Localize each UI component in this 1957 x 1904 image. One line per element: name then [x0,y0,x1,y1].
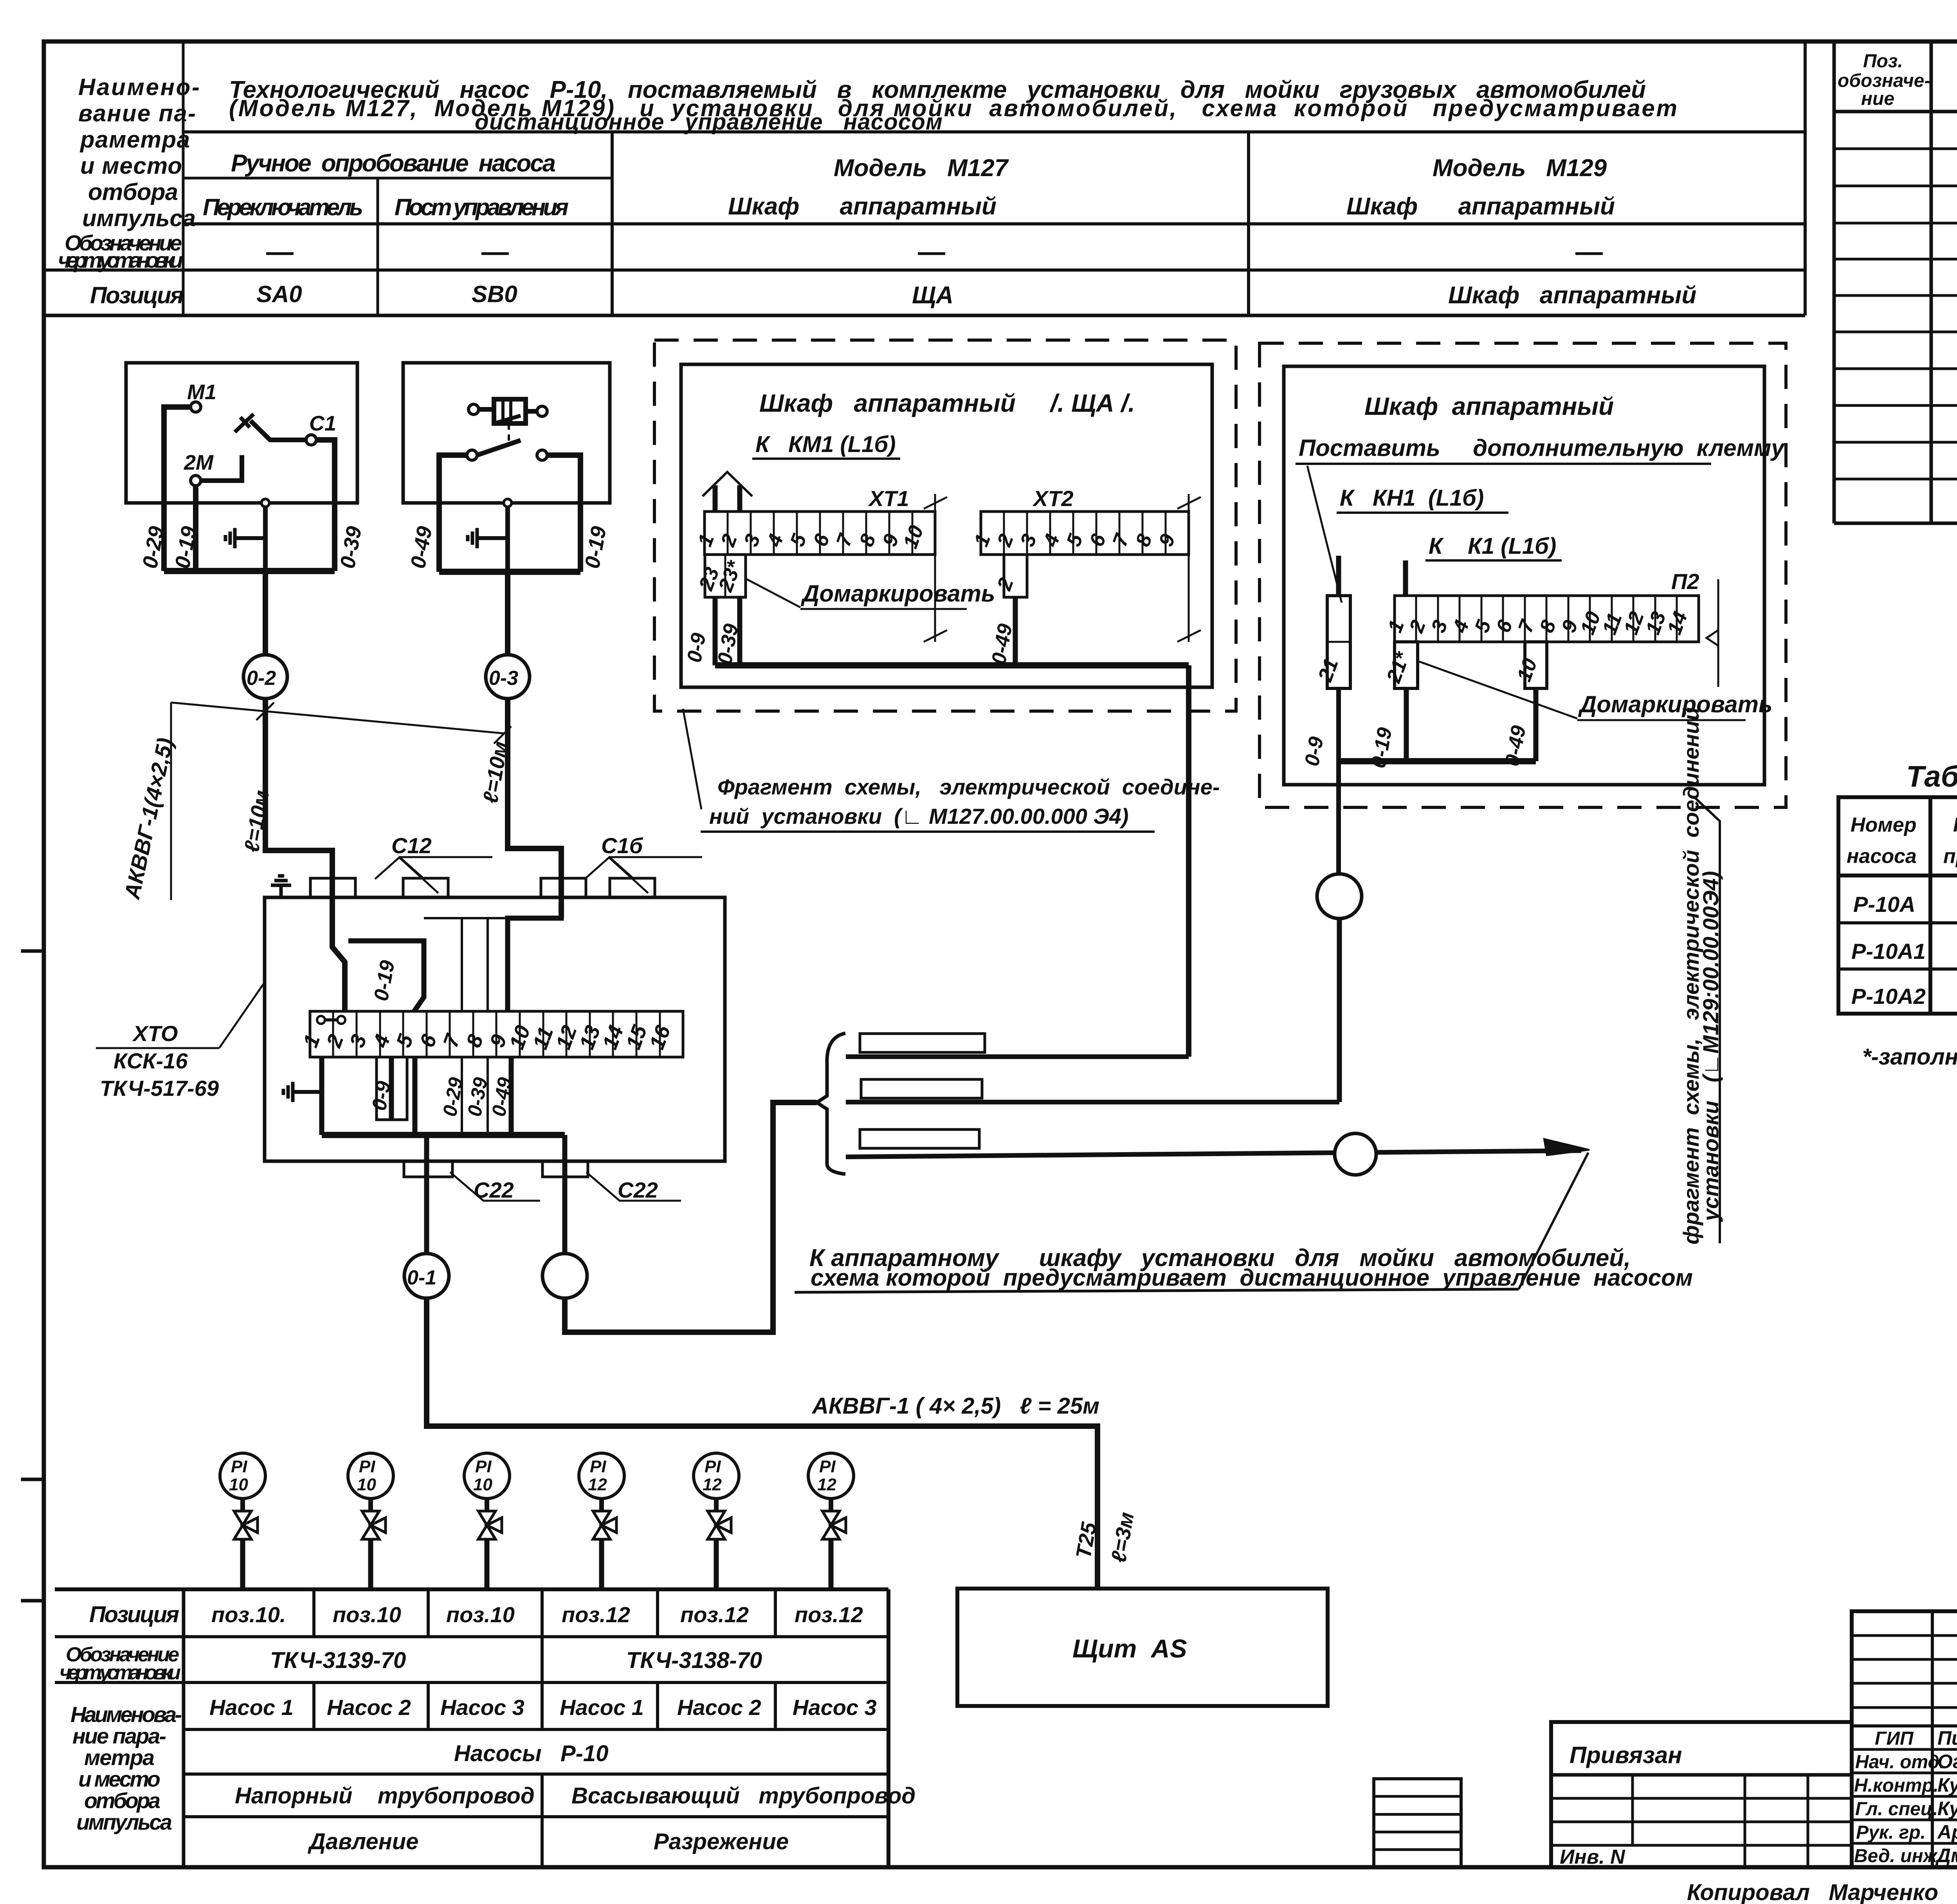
header table label column right edge [182,41,185,315]
divider napornyj/vsasyvajushchij [541,1774,544,1867]
wire M1 to 0-29 [164,407,191,571]
bus M129 [1339,758,1536,764]
svg-text:0-3: 0-3 [489,667,518,690]
svg-text:Поставить дополнительную: Поставить дополнительную клемму [1299,435,1785,461]
svg-text:Модель М127: Модель М127 [834,155,1009,182]
svg-text:Шкаф аппаратный: Шкаф аппаратный [1346,193,1615,220]
dash cells Oboznachenie row [266,252,1603,255]
collecting bus M127 [715,662,1189,668]
cabinet box M129 [1284,366,1764,785]
svg-text:поз.10: поз.10 [446,1602,515,1627]
svg-text:Разрежение: Разрежение [654,1829,789,1854]
arrowhead cable 3 [1544,1139,1589,1155]
spec table bottom [1834,522,1957,525]
cell 10 [1525,642,1547,688]
svg-text:поз.10.: поз.10. [211,1602,286,1627]
pressure sensor body [479,399,537,411]
svg-text:Нач. отд.: Нач. отд. [1855,1752,1945,1773]
bus SA0 [164,568,335,574]
wire 0-2 down [265,699,345,1011]
svg-text:ТКЧ-517-69: ТКЧ-517-69 [100,1076,219,1101]
terminal strip XT2 [981,512,1189,555]
underline K KM1 [752,458,900,460]
svg-text:ТКЧ-3138-70: ТКЧ-3138-70 [626,1648,762,1673]
svg-text:поз.12: поз.12 [562,1602,630,1627]
svg-text:0-1: 0-1 [407,1266,436,1289]
fold tick left 2 [23,1599,44,1603]
pressure sensor contact left [469,404,479,414]
svg-text:Фрагмент схемы, электрическ: Фрагмент схемы, электрической соедине- [717,775,1220,799]
svg-text:SВ0: SВ0 [472,281,517,307]
dashed enclosure M127 [654,340,1236,711]
spec table left edge [1833,41,1836,523]
svg-text:Всасывающий трубопровод: Всасывающий трубопровод [571,1783,915,1809]
svg-text:Вед. инж.: Вед. инж. [1854,1846,1942,1866]
P2 end tick [1717,579,1719,687]
svg-text:Давление: Давление [307,1829,418,1854]
svg-text:Огурцов: Огурцов [1937,1751,1957,1773]
svg-text:вание па-: вание па- [78,100,196,126]
svg-text:Пост управления: Пост управления [395,194,569,220]
stub over cell 21 [1336,556,1341,596]
Shchit AS box [957,1589,1328,1706]
strip numbers 1-16 [299,1022,675,1052]
applicability headers [1847,810,1957,872]
note flag slant [1519,1153,1588,1289]
svg-text:РI: РI [590,1457,606,1476]
svg-text:Наимено-: Наимено- [78,74,200,100]
staff titles [1854,1728,1945,1866]
bottom table outline [55,1587,888,1591]
svg-text:(Модель М127, Модель М129): (Модель М127, Модель М129) и установки д… [229,95,1677,121]
applicability col lines [1928,797,1932,1014]
svg-text:Насос 3: Насос 3 [440,1695,524,1720]
mini table left of privjazan [1374,1779,1461,1867]
svg-text:Позиция: Позиция [90,282,184,308]
bottom bushing 2 [542,1161,588,1177]
svg-text:0-2: 0-2 [247,667,276,690]
svg-text:К КН1 (L1б): К КН1 (L1б) [1340,485,1484,511]
svg-text:П2: П2 [1671,569,1699,594]
svg-text:поз.12: поз.12 [795,1602,863,1627]
svg-text:схема которой предусматривает: схема которой предусматривает дистанцион… [811,1265,1693,1291]
svg-text:Гл. спец.: Гл. спец. [1855,1799,1938,1819]
svg-text:отбора: отбора [84,1788,160,1813]
svg-text:Шкаф аппаратный /. ЩА /.: Шкаф аппаратный /. ЩА /. [759,389,1135,417]
svg-text:и место: и место [78,1767,160,1791]
wires 0-9 0-39 [713,597,718,665]
stub over P2 cell1 [1403,560,1408,596]
svg-text:раметра: раметра [79,126,190,153]
empty circle [542,1254,587,1298]
svg-text:10: 10 [473,1475,492,1494]
svg-text:Дмитриева: Дмитриева [1935,1845,1957,1866]
fragment leader M129 [1694,797,1720,1243]
svg-text:Домаркировать: Домаркировать [1578,691,1773,717]
pozicija cells [211,1602,863,1627]
svg-text:Насос 2: Насос 2 [677,1695,761,1720]
svg-text:SА0: SА0 [256,281,302,307]
terminal strip XT1 [705,512,935,555]
svg-text:поз.12: поз.12 [680,1602,749,1627]
cell 2 under XT2 [1004,555,1027,597]
svg-text:насоса: насоса [1847,845,1917,868]
top bushing 3 [541,878,586,897]
wire C1 to 0-39 [316,440,335,571]
svg-text:метра: метра [84,1745,155,1770]
svg-text:ХТ2: ХТ2 [1032,486,1074,511]
svg-text:12: 12 [703,1475,722,1494]
fold tick left 1 [23,1478,44,1481]
svg-text:Р-10А1: Р-10А1 [1851,939,1926,964]
cabinet box M127 [681,364,1212,687]
XT2 end tick [1188,494,1190,642]
switch box SA0 [126,363,357,503]
svg-text:Пивторак: Пивторак [1937,1727,1957,1749]
small cell around 0-9 [377,1057,407,1120]
svg-text:Насос 1: Насос 1 [560,1695,644,1720]
wire empty circle to brace [565,1102,817,1332]
svg-text:Ручное опробование насоса: Ручное опробование насоса [231,150,556,177]
strip cell dividers [333,1011,660,1057]
svg-text:Щит АS: Щит АS [1072,1634,1187,1663]
top bushing 1 [310,878,355,897]
SB0 right wire 0-19 [547,455,580,572]
svg-text:Насос 1: Насос 1 [209,1695,294,1720]
ground SA0 [235,536,265,540]
cable 3 mark rect [860,1129,979,1148]
svg-text:ний установки (∟ М127.00.00.: ний установки (∟ М127.00.00.000 Э4) [709,804,1129,829]
svg-text:Номер: Номер [1953,814,1957,836]
svg-text:РI: РI [705,1457,721,1476]
svg-text:РI: РI [475,1457,492,1476]
svg-text:Шкаф аппаратный: Шкаф аппаратный [728,193,997,220]
bottom bus KCK [322,1132,565,1138]
row line nasosy R-10 bottom [184,1773,888,1776]
SB0 contact right [537,450,547,460]
svg-text:импульса: импульса [82,205,196,231]
wire 0-49 from XT2 [1013,597,1018,665]
wire SA0 down to circle 0-2 [263,571,268,655]
wire 0-19 [193,486,198,571]
divider TKCh [541,1637,544,1682]
ground SB0 [477,536,508,540]
exit wire M127 down [1186,665,1191,1057]
svg-text:черт.установки: черт.установки [58,248,183,272]
circle 0-2 [243,655,287,699]
cable leader line [171,703,511,900]
PI gauge group (6 gauges) [220,1453,854,1588]
svg-text:КСК-16: КСК-16 [114,1048,188,1073]
divider Perekl/Post [377,178,379,315]
PI labels [229,1457,836,1494]
SB0 center wire [505,503,510,572]
svg-text:Арнаутова: Арнаутова [1937,1821,1957,1843]
rule under Perekl/Post row [183,222,1805,225]
svg-text:К КМ1 (L1б): К КМ1 (L1б) [755,432,896,457]
applicability data rows [1851,890,1957,1009]
svg-text:Таблица применяемости: Таблица применяемости [1906,760,1957,793]
svg-text:С1б: С1б [601,833,643,858]
cable line 2 [846,1100,1339,1104]
svg-text:Р-10А2: Р-10А2 [1851,984,1926,1009]
spec header bottom [1834,110,1957,113]
switch box SB0 [403,363,610,503]
svg-text:ТКЧ-3139-70: ТКЧ-3139-70 [270,1648,406,1673]
XT1 cell numbers [694,522,928,595]
svg-text:импульса: импульса [76,1810,172,1834]
circle 0-1 [404,1254,449,1298]
svg-text:Насос 3: Насос 3 [793,1695,877,1720]
svg-text:Переключатель: Переключатель [203,194,363,220]
cells 23 / 23* [705,555,746,597]
note underline [795,1289,1519,1292]
dashed enclosure M129 [1260,343,1786,807]
cable 2 mark rect [861,1079,982,1098]
link contact in cell1 [317,1016,345,1024]
applicability table outline [1838,797,1957,1014]
bottom bushing 1 [404,1161,452,1177]
applicability row lines [1838,921,1957,924]
top bushing 4 [610,878,655,897]
contact 2M [191,476,201,486]
svg-text:Кузнецов: Кузнецов [1937,1798,1957,1819]
svg-text:и место: и место [80,153,182,179]
contact C1 [306,435,316,445]
terminal strip P2 [1395,596,1699,642]
wire2 Z into cell9 [508,897,561,1011]
applicability header bottom [1838,874,1957,877]
svg-text:РI: РI [359,1457,375,1476]
svg-text:ХТ1: ХТ1 [868,486,909,511]
svg-text:С12: С12 [391,833,432,858]
circle 0-3 [486,655,530,699]
spec table col Poz right [1930,41,1933,523]
header table right edge [1804,41,1807,315]
wire 0-1 to Shchit AS [427,1298,1097,1589]
leader Postavit to cell 21 [1307,466,1342,603]
col lines pozicija/nasos rows [312,1589,315,1637]
divider Post/M127 [611,132,614,315]
wire 0-9 M129 [1336,688,1341,874]
staff names [1935,1727,1957,1866]
fragment leader M127 [683,709,701,809]
row line nasos bottom [184,1728,888,1731]
svg-text:2М: 2М [184,451,214,474]
flag over stubs [703,472,752,496]
svg-text:дистанционное управление н: дистанционное управление насосом [475,109,942,135]
svg-text:РI: РI [819,1457,836,1476]
divider M127/M129 [1247,132,1250,315]
circle on cable 3 [1335,1133,1376,1175]
row line oboznachenie bottom [55,1681,888,1684]
svg-text:12: 12 [588,1475,607,1494]
rule under Ruchnoe oprobovanie [183,177,612,180]
svg-text:Инв. N: Инв. N [1560,1846,1625,1868]
svg-text:Поз.: Поз. [1863,51,1903,72]
svg-text:С1: С1 [309,412,336,435]
svg-text:*-заполняется при привя: *-заполняется при привязке проекта [1862,1044,1957,1070]
svg-text:12: 12 [817,1475,836,1494]
bus SB0 [439,569,580,575]
svg-text:установки (∟М129:00.00.00Э4): установки (∟М129:00.00.00Э4) [1698,871,1723,1222]
svg-text:Р-10А: Р-10А [1853,892,1916,917]
svg-text:отбора: отбора [88,179,178,205]
svg-text:АКВВГ-1 ( 4× 2,5) ℓ = 25м: АКВВГ-1 ( 4× 2,5) ℓ = 25м [811,1393,1099,1419]
svg-text:Позиция: Позиция [89,1602,179,1627]
svg-text:Насос 2: Насос 2 [327,1695,411,1720]
fold tick left 3 [23,949,44,953]
rule under Pozicija row (table bottom) [44,314,1805,317]
P2 cell numbers [1314,609,1692,686]
cable 1 mark rect [860,1034,985,1052]
row line pozicija bottom [55,1635,888,1638]
spec row lines [1834,148,1957,150]
svg-text:10: 10 [229,1475,248,1494]
svg-text:Шкаф аппаратный: Шкаф аппаратный [1448,282,1696,309]
single cell 21 [1327,596,1350,688]
svg-text:ГИП: ГИП [1875,1728,1914,1749]
wire 0-19 M129 [1404,688,1409,761]
below-strip wires [319,1057,324,1135]
blade cross tick [235,414,254,432]
XT1 end tick [934,494,936,642]
svg-text:ХТО: ХТО [132,1021,178,1046]
svg-text:Наименова-: Наименова- [70,1702,182,1727]
cable brace [817,1033,845,1174]
svg-text:Шкаф аппаратный: Шкаф аппаратный [1364,392,1614,420]
svg-text:Домаркировать: Домаркировать [800,580,995,607]
inner branch to cell5 [348,941,424,1011]
XT2 cell numbers [970,530,1180,594]
svg-text:Н.контр.: Н.контр. [1854,1775,1939,1796]
svg-text:поз.10: поз.10 [333,1602,401,1627]
svg-text:привода: привода [1943,845,1957,868]
circle on 0-9 wire [1317,874,1362,919]
svg-text:ние: ние [1861,88,1894,109]
label col text Naimenovanie parametra [78,74,200,231]
contact M1 [191,402,201,412]
C16 flag [585,857,702,893]
top bushing 2 [403,878,448,897]
svg-text:Рук. гр.: Рук. гр. [1856,1822,1926,1843]
svg-text:Кузнецов: Кузнецов [1937,1774,1957,1796]
terminal strip KCK [310,1011,683,1057]
svg-text:К К1 (L1б): К К1 (L1б) [1429,533,1556,559]
svg-text:Насосы Р-10: Насосы Р-10 [454,1741,608,1766]
row line napornyj bottom [184,1815,888,1818]
wire 2M branch [201,455,242,481]
ground bottom left [293,1090,322,1094]
signature table [1852,1611,1957,1867]
C12 flag [375,857,492,893]
wire center with junction [263,503,268,571]
svg-text:Модель М129: Модель М129 [1433,155,1607,182]
svg-text:РI: РI [231,1457,247,1476]
cable line 1 [846,1054,1189,1059]
exits to bushings [424,1135,429,1253]
svg-text:Копировал Марченко: Копировал Марченко [1687,1880,1938,1904]
svg-text:10: 10 [357,1475,376,1494]
switch blade SA0 [250,421,306,440]
SB0 blade [477,440,521,455]
svg-text:ЩА: ЩА [912,282,953,309]
svg-text:Номер: Номер [1851,814,1916,836]
pressure sensor contact right [537,406,547,416]
privjazan block [1551,1722,1852,1867]
SB0 contact left [467,450,477,460]
nasos cells [209,1695,877,1720]
ground top left [279,885,283,897]
cable line 3 with arrow [846,1151,1581,1157]
stub wires to XT1 [713,485,718,512]
wire below circle to cable2 [1337,919,1342,1102]
svg-text:С22: С22 [618,1178,658,1202]
wire 0-49 M129 [1534,688,1539,761]
SB0 left wire 0-49 [439,455,467,572]
svg-text:Напорный трубопровод: Напорный трубопровод [235,1783,535,1809]
svg-text:Привязан: Привязан [1570,1742,1682,1768]
cell 21* [1395,642,1418,688]
svg-text:черт.установки: черт.установки [59,1661,181,1684]
svg-text:ние пара-: ние пара- [72,1724,166,1748]
svg-text:М1: М1 [187,380,216,404]
rule under Oboznachenie row [44,268,1805,272]
wire 0-3 down [508,699,561,918]
junction box KCK-16 [265,897,725,1161]
wire SB0 down to circle 0-3 [505,572,510,655]
pressure sensor stem [508,423,510,441]
thin wires to cells 7 8 [461,918,463,1011]
header table rule under top text [183,130,1805,133]
